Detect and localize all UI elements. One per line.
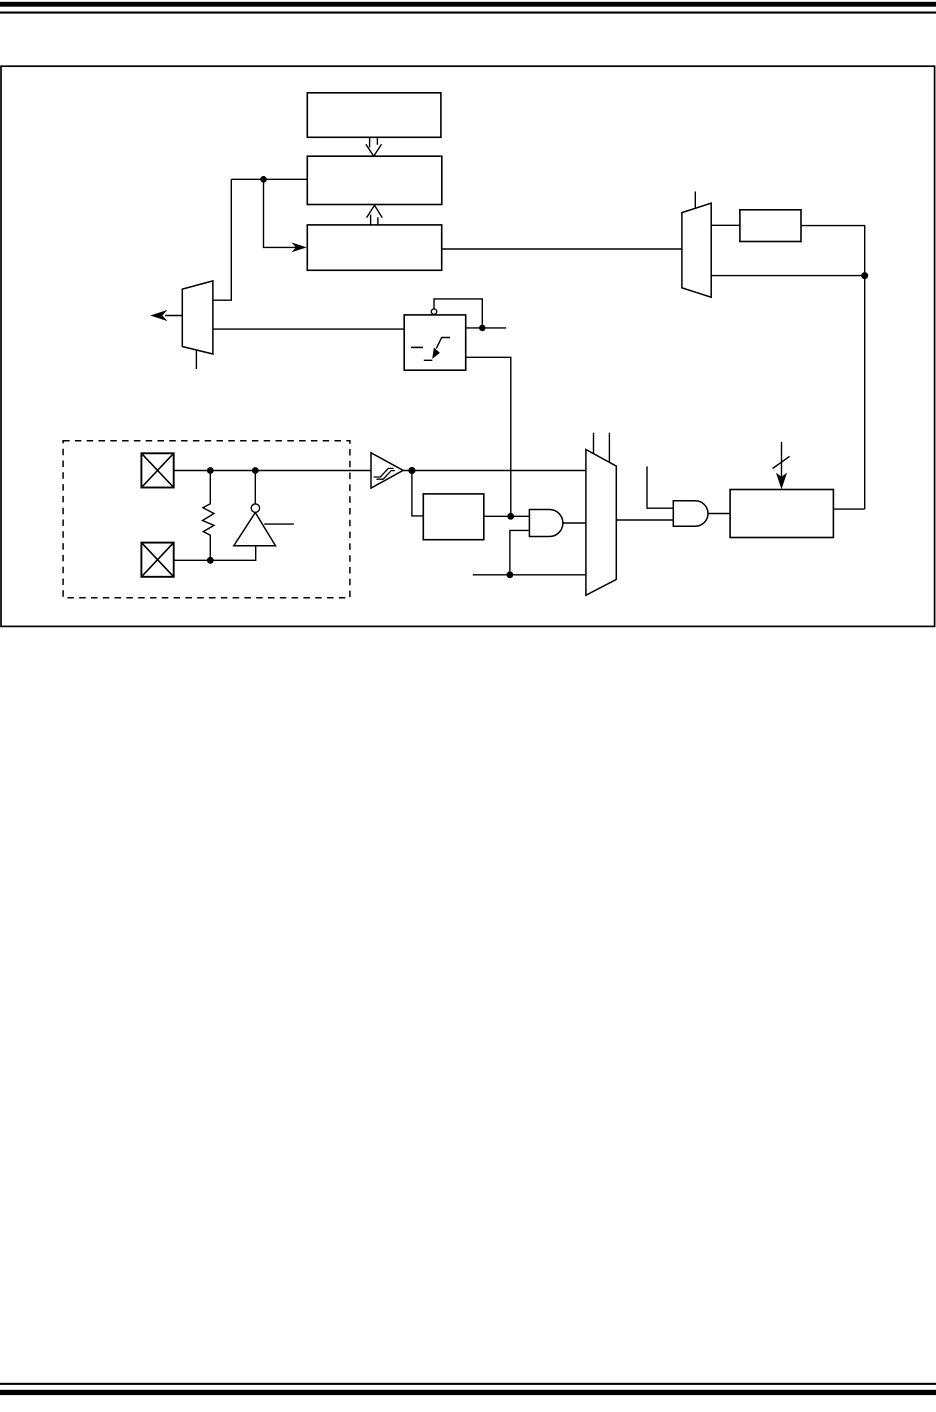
prescaler arrowhead: [776, 473, 787, 490]
bus arrow B3 to B2: [367, 205, 383, 225]
wire M2 upper input from B4: [711, 224, 740, 226]
node inverter output: [252, 467, 259, 474]
register B1 (top box): [307, 93, 441, 138]
node N6: [507, 571, 514, 578]
mux M1 output arrowhead: [150, 310, 167, 321]
bus width slash: [773, 456, 790, 468]
mux M1 (left): [182, 281, 213, 354]
mux M1 select stub: [195, 350, 197, 369]
resistor R1: [203, 471, 215, 561]
node N1: [260, 176, 267, 183]
wire inverter output up: [254, 471, 256, 504]
wire M1 input from sync block: [213, 328, 404, 330]
buffer output wire to M3: [403, 470, 586, 472]
dashed oscillator enclosure: [63, 441, 350, 598]
G2 output wire: [708, 513, 730, 515]
node N3: [861, 272, 868, 279]
pin pad P2 (bottom): [141, 543, 173, 577]
schmitt hysteresis glyph: [374, 468, 395, 479]
register B2 (middle box): [307, 156, 442, 204]
wire N1 down to B3 clock input: [264, 179, 297, 247]
wire P2 to inverter input: [174, 546, 256, 561]
wire B4 output right then down: [801, 226, 865, 510]
prescaler top arrow shaft: [781, 442, 783, 478]
inverter bubble: [251, 504, 259, 512]
clock arrowhead into B3: [292, 243, 307, 253]
wire N3 to M2 lower input: [711, 275, 865, 277]
G2 upper input stub: [647, 466, 673, 508]
M3 select stub a: [593, 433, 595, 454]
inverter U6: [234, 513, 276, 546]
node N5: [507, 513, 514, 520]
mux M1 output wire: [165, 315, 182, 317]
select wire into M3 bottom input: [473, 574, 586, 576]
buffer input wire from oscillator: [174, 470, 371, 472]
clock bubble on U4: [431, 309, 436, 314]
prescaler box B5: [730, 490, 833, 538]
mux M2 (right): [682, 203, 711, 297]
wire B2 left: [231, 178, 307, 180]
M3 select stub b: [608, 433, 610, 463]
G1 lower input step: [510, 530, 530, 574]
wire B6 to AND gate G1: [484, 515, 530, 517]
schmitt buffer U5: [371, 453, 403, 488]
mux M2 select stub: [694, 192, 696, 209]
AND gate G2: [673, 501, 708, 526]
wire into prescaler right edge: [833, 508, 864, 510]
block B6 (sync enable box): [423, 494, 484, 540]
block B4 (small sync box): [740, 210, 801, 242]
register B3 (timer register box): [307, 225, 441, 270]
wire U4 lower output down to node N5: [466, 357, 511, 513]
wire bubble to node N2: [434, 299, 482, 325]
sync block U4: [404, 315, 466, 370]
level dash in U4: [411, 346, 423, 348]
wire B3 to mux M2 output: [442, 248, 682, 250]
node R1 bottom: [207, 557, 214, 564]
wire down to mux M1: [213, 179, 231, 300]
falling edge symbol in U4: [424, 338, 450, 361]
inverter enable stub: [264, 523, 294, 525]
node N4: [408, 467, 415, 474]
pin pad P1 (top): [141, 453, 173, 487]
wire M3 output to G2: [616, 519, 673, 521]
G1 output wire: [563, 522, 586, 524]
node R1 top: [207, 467, 214, 474]
wire U4 output stub: [466, 327, 507, 329]
AND gate G1: [529, 510, 563, 537]
node N2: [479, 325, 486, 332]
bus arrow B1 to B2: [366, 137, 382, 156]
mux M3 (center): [586, 450, 616, 596]
wire N4 down to B6: [412, 471, 423, 516]
